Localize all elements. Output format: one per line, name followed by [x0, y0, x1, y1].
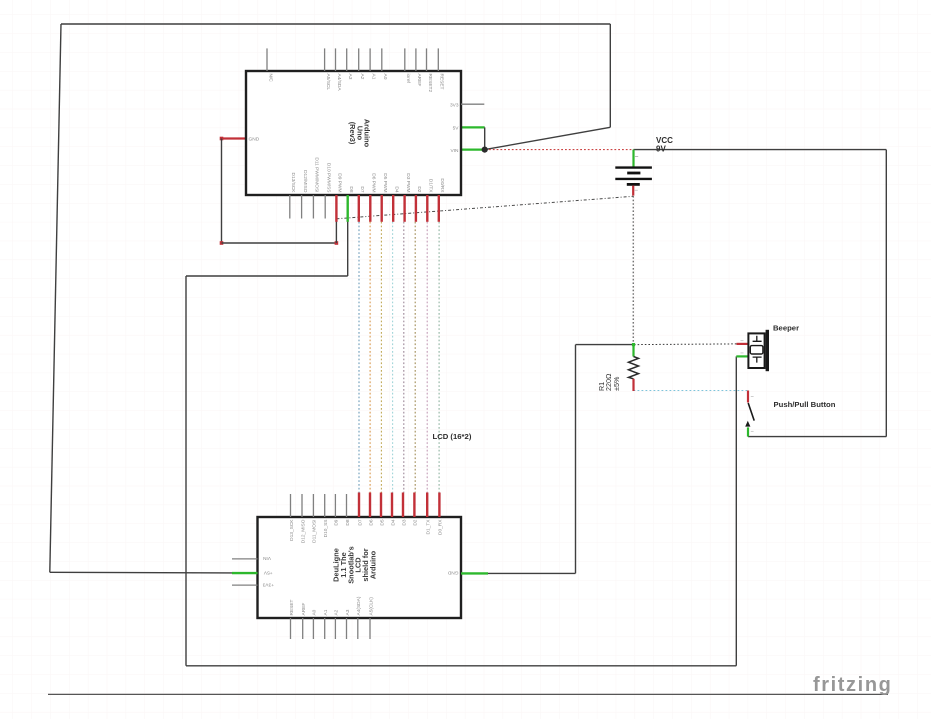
U2 bottom pin AREF — [302, 618, 304, 639]
U1 top pin A4/SDA — [335, 48, 337, 71]
battery BT1 bottom red terminal — [632, 186, 634, 196]
U1 bottom pin D3 PWM — [403, 195, 405, 222]
svg-text:VIN: VIN — [451, 148, 460, 154]
svg-text:D5 PWM: D5 PWM — [382, 173, 388, 192]
ratsnest R1 top to beeper+ (dotted) — [634, 343, 737, 346]
svg-text:LCD (16*2): LCD (16*2) — [433, 432, 472, 441]
node R1 top junction green dot — [632, 343, 635, 346]
beeper LS1 left pin - (green) — [736, 355, 748, 357]
U1 bottom pin D10 PWM/SS — [324, 195, 326, 219]
svg-text:D10 PWM/SS: D10 PWM/SS — [326, 163, 332, 193]
svg-text:D4: D4 — [390, 519, 396, 525]
lcd U2 body — [258, 517, 462, 618]
U2 bottom pin A5(CLK) — [369, 618, 371, 639]
resistor R1 top green lead — [632, 345, 634, 357]
svg-text:D7: D7 — [357, 519, 363, 525]
wire D8 net vertical under U1 — [347, 220, 349, 277]
U2 top pin D7 — [358, 493, 360, 518]
svg-text:D3 PWM: D3 PWM — [405, 173, 411, 192]
svg-text:D8: D8 — [345, 519, 351, 525]
U2 top pin D13_SCK — [290, 494, 292, 517]
U2 top pin D5 — [380, 493, 382, 518]
battery BT1 plate short 1 — [627, 172, 640, 175]
U1 top pin AREF — [415, 48, 417, 71]
button S1 lever — [748, 403, 754, 421]
U2 top pin D0_RX — [438, 493, 440, 518]
svg-text:D13/SCK: D13/SCK — [290, 173, 296, 194]
wire down right of LCD — [575, 345, 577, 574]
button S1 arrow — [745, 421, 750, 427]
U1 bottom pin D4 — [392, 195, 394, 222]
svg-text:D2: D2 — [416, 186, 422, 192]
U2 top pin D9 — [334, 494, 336, 517]
svg-text:D7: D7 — [359, 186, 365, 192]
svg-text:D5: D5 — [379, 519, 385, 525]
node GND corner dot 1 — [220, 137, 224, 141]
svg-text:A1: A1 — [323, 609, 329, 615]
svg-text:N/C: N/C — [267, 74, 273, 83]
U1 top pin A3 — [346, 48, 348, 71]
U2 top pin D1_TX — [426, 493, 428, 518]
U1 bottom pin D2 — [415, 195, 417, 222]
button S1 minus mark — [751, 396, 754, 398]
U1 bottom pin D0/RX — [438, 195, 440, 222]
wire D8 net up to beeper — [735, 356, 737, 665]
U1 bottom pin D9 PWM — [335, 195, 337, 222]
ratsnest D7 dotted — [358, 222, 360, 493]
svg-text:A2: A2 — [334, 609, 340, 615]
U1 bottom pin D8 — [347, 195, 349, 222]
svg-text:RESET: RESET — [289, 599, 295, 615]
wire GND vertical — [221, 139, 223, 244]
svg-text:D4: D4 — [394, 186, 400, 192]
svg-text:A4(SDA): A4(SDA) — [356, 596, 362, 615]
wire junction vertical 5V-VIN — [484, 127, 486, 149]
svg-text:ioref: ioref — [405, 74, 411, 84]
wire VCC red dotted to battery + — [489, 149, 634, 151]
battery BT1 minus mark — [635, 156, 638, 158]
ratsnest D5 dotted — [380, 222, 382, 493]
wire VCC to button — [748, 436, 886, 438]
battery BT1 plate short 2 — [627, 183, 640, 186]
wire 5V green pin — [461, 126, 485, 128]
svg-text:D13_SCK: D13_SCK — [289, 519, 295, 541]
ratsnest battery- to R1 top (dotted) — [632, 196, 634, 345]
beeper LS1 piezo bar — [766, 330, 769, 371]
wire 5V net right vertical — [609, 24, 611, 127]
U1 bottom pin D6 PWM — [369, 195, 371, 222]
wire VIN green pin — [461, 149, 485, 151]
node junction VIN/5V — [482, 147, 488, 153]
svg-text:±5%: ±5% — [612, 376, 621, 391]
button S1 plus mark — [751, 430, 754, 432]
U1 top pin A5/SCL — [324, 48, 326, 71]
svg-text:fritzing: fritzing — [813, 674, 892, 696]
wire GND up to D9 pin — [335, 220, 337, 244]
svg-text:D2: D2 — [413, 519, 419, 525]
svg-text:RESET2: RESET2 — [427, 74, 433, 93]
svg-text:VIN: VIN — [262, 555, 271, 561]
U2 top pin D3 — [402, 493, 404, 518]
svg-text:(Rev3): (Rev3) — [348, 122, 357, 145]
svg-text:5V: 5V — [453, 126, 460, 132]
beeper LS1 inner rect — [750, 346, 763, 354]
battery BT1 top green terminal — [632, 150, 634, 167]
svg-text:AREF: AREF — [416, 74, 422, 87]
ratsnest D0 dotted — [438, 222, 440, 493]
svg-text:A0: A0 — [312, 609, 318, 615]
svg-text:D3: D3 — [401, 519, 407, 525]
wire D8 net bottom horizontal — [186, 665, 736, 667]
svg-text:GND: GND — [447, 570, 458, 576]
svg-text:A4/SDA: A4/SDA — [336, 74, 342, 92]
svg-text:RESET: RESET — [439, 74, 445, 90]
U2 bottom pin A4(SDA) — [357, 618, 359, 639]
wire 5V net left slant — [50, 24, 61, 572]
ratsnest D4 dotted — [392, 222, 394, 493]
beeper LS1 body — [748, 333, 764, 368]
wire 5V net top horizontal — [61, 23, 610, 25]
ratsnest D6 dotted — [369, 222, 371, 493]
beeper LS1 minus mark — [741, 352, 744, 354]
resistor R1 bottom red lead — [632, 379, 634, 391]
wire D8 net long left vertical — [185, 276, 187, 666]
beeper LS1 plus symbol — [753, 336, 762, 342]
svg-text:A3: A3 — [347, 74, 353, 80]
wire VCC horizontal to right — [634, 149, 887, 151]
U2 left pin +3V3 — [232, 584, 258, 586]
U2 left pin VIN — [232, 558, 258, 560]
resistor R1 zigzag body — [629, 357, 639, 379]
U2 bottom pin RESET — [290, 618, 292, 639]
arduino U1 body — [246, 71, 461, 195]
U2 bottom pin A1 — [324, 618, 326, 639]
svg-text:D12_MISO: D12_MISO — [300, 519, 306, 543]
U2 top pin D2 — [413, 493, 415, 518]
ratsnest D2 dotted — [414, 222, 416, 493]
U2 bottom pin A2 — [334, 618, 336, 639]
U1 top pin ioref — [404, 48, 406, 71]
wire to LCD GND — [488, 572, 576, 574]
svg-text:D9 PWM: D9 PWM — [337, 173, 343, 192]
U2 top pin D8 — [346, 494, 348, 517]
U1 bottom pin D12/MISO — [301, 195, 303, 219]
wire 5V net bottom horizontal to LCD +5V — [50, 571, 232, 574]
svg-text:+5V: +5V — [263, 569, 272, 575]
U2 left pin +5V green — [232, 572, 258, 574]
U1 part name Arduino Uno (Rev3) — [348, 119, 372, 148]
node GND corner dot 3 — [335, 241, 339, 245]
U2 top pin D4 — [391, 493, 393, 518]
U1 bottom pin D1/TX — [426, 195, 428, 222]
U1 bottom pin D5 PWM — [381, 195, 383, 222]
svg-text:D6: D6 — [368, 519, 374, 525]
U2 part name DeuLigne 1.1 The Snootlab's LCD shield for Arduino — [332, 546, 378, 583]
beeper LS1 left pin + (red) — [737, 343, 749, 345]
svg-text:GND: GND — [249, 137, 260, 143]
U2 top pin D12_MISO — [301, 494, 303, 517]
svg-text:+3V3: +3V3 — [262, 581, 274, 587]
svg-text:A3: A3 — [345, 609, 351, 615]
svg-text:3V3: 3V3 — [450, 102, 459, 108]
button S1 top red pin — [747, 391, 749, 403]
wire 5V net diagonal to junction — [485, 127, 611, 149]
wire GND horizontal — [222, 242, 337, 244]
svg-text:D1_TX: D1_TX — [426, 519, 432, 535]
U2 top pin D11_MOSI — [312, 494, 314, 517]
svg-text:D0/RX: D0/RX — [439, 178, 445, 193]
svg-text:D9: D9 — [334, 519, 340, 525]
battery BT1 plate long 2 — [615, 178, 652, 180]
beeper LS1 T symbol — [753, 357, 762, 363]
ratsnest diagonal D9 to battery- — [336, 196, 633, 219]
svg-text:D1/TX: D1/TX — [428, 179, 434, 193]
battery BT1 plate long 1 — [615, 166, 652, 168]
U1 top pin RESET — [437, 48, 439, 71]
U1 top pin A1 — [369, 48, 371, 71]
ratsnest D3 dotted — [403, 222, 405, 493]
svg-text:AREF: AREF — [301, 603, 307, 616]
U2 right pin GND green — [461, 572, 488, 574]
U2 top pin D6 — [369, 493, 371, 518]
svg-text:D11_MOSI: D11_MOSI — [312, 520, 318, 543]
wire VCC right vertical — [885, 150, 887, 437]
svg-text:A0: A0 — [382, 74, 388, 80]
node GND corner dot 2 — [220, 241, 224, 245]
U1 top pin A0 — [381, 48, 383, 71]
svg-text:D6 PWM: D6 PWM — [371, 173, 377, 192]
battery BT1 plus mark — [635, 189, 638, 191]
svg-text:D11 PWM/MOSI: D11 PWM/MOSI — [314, 157, 320, 192]
U1 bottom pin D13/SCK — [289, 195, 291, 219]
svg-text:A5/SCL: A5/SCL — [325, 74, 331, 91]
wire R1 junction left — [576, 344, 634, 346]
svg-text:Push/Pull Button: Push/Pull Button — [774, 400, 836, 409]
button S1 bottom green pin — [747, 427, 749, 436]
U1 top pin RESET2 — [426, 48, 428, 71]
svg-text:D12/MISO: D12/MISO — [302, 170, 308, 193]
U2 top pin D10_SS — [324, 494, 326, 517]
U1 right pin 3V3 — [461, 103, 484, 105]
svg-text:D10_SS: D10_SS — [323, 520, 329, 538]
svg-text:D0_RX: D0_RX — [438, 519, 444, 535]
svg-text:9V: 9V — [656, 145, 666, 154]
U2 bottom pin A0 — [312, 618, 314, 639]
svg-text:A1: A1 — [370, 74, 376, 80]
svg-text:A2: A2 — [359, 74, 365, 80]
svg-text:D8: D8 — [348, 186, 354, 192]
svg-text:Beeper: Beeper — [773, 324, 799, 333]
wire D8 net horizontal — [186, 275, 348, 277]
U1 bottom pin D7 — [358, 195, 360, 222]
bottom border line — [48, 693, 888, 695]
U1 bottom pin D11 PWM/MOSI — [312, 195, 314, 219]
wire GND red stub from U1 — [222, 137, 247, 139]
svg-text:A5(CLK): A5(CLK) — [368, 597, 374, 616]
U1 top pin N/C — [266, 48, 268, 71]
beeper LS1 plus mark — [741, 340, 744, 342]
U2 bottom pin A3 — [346, 618, 348, 639]
ratsnest D1 dotted — [426, 222, 428, 493]
ratsnest R1 bottom to button (blue dotted) — [634, 390, 748, 392]
U1 top pin A2 — [358, 48, 360, 71]
svg-text:Arduino: Arduino — [368, 550, 377, 579]
